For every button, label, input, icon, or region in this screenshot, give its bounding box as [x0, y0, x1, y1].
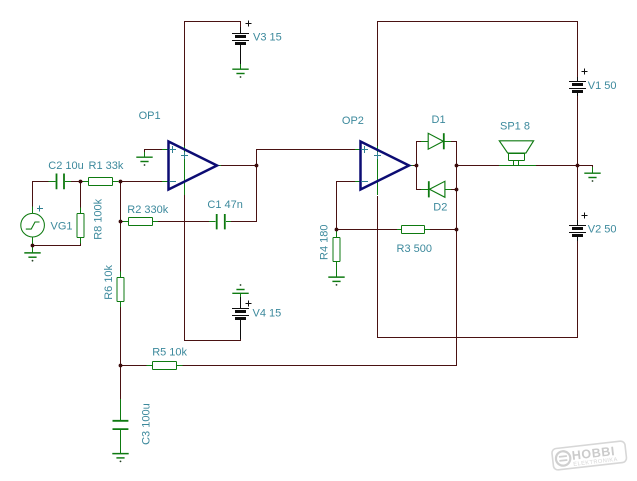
wire: C2 to R1 node: [71, 181, 87, 183]
svg-text:R2 330k: R2 330k: [127, 204, 168, 216]
wire: R5 to riser up to R3 node: [182, 231, 457, 366]
node: D2 cathode on right rail: [455, 188, 459, 192]
node: OP2 output junction: [415, 164, 419, 168]
node: R1/R2/R6 inverting junction: [119, 180, 123, 184]
wire: diode bridge left rail: [413, 142, 421, 190]
wire: bottom node to R5: [121, 365, 148, 367]
node: OP1 output junction: [255, 164, 259, 168]
wire: R6 to bottom node: [120, 306, 122, 366]
wire: R4 node to R3: [337, 229, 399, 231]
wire: OP1 positive supply riser and top rail to V3: [185, 22, 241, 147]
node: R2 trunk junction: [119, 220, 123, 224]
svg-text:R3 500: R3 500: [397, 243, 432, 255]
node: C2/R1/R8 junction: [79, 180, 83, 184]
resistor R1 33k: [89, 178, 113, 186]
resistor R3 500: [402, 226, 425, 234]
source VG1: [21, 213, 45, 237]
wire: right rail through speaker to supply midpoint: [457, 165, 578, 167]
resistor R5 10k: [153, 362, 177, 370]
capacitor C3 100u: [113, 421, 129, 429]
resistor R4 180: [333, 238, 340, 262]
ground below R4: [328, 276, 344, 278]
node: supply midpoint junction: [576, 164, 580, 168]
battery V1 50: [577, 77, 579, 81]
node: VG1 ground junction: [31, 244, 35, 248]
svg-text:V2 50: V2 50: [588, 224, 617, 236]
svg-text:V4 15: V4 15: [253, 307, 282, 319]
wire: R2 to inverting trunk: [121, 221, 124, 223]
wire: OP1 + input to ground: [145, 150, 163, 154]
speaker SP1 8: [499, 141, 533, 153]
wire: midpoint node to ground stub: [578, 166, 593, 170]
wire: V2 down, box bottom edge, box left edge: [378, 196, 578, 338]
diode D2: [421, 189, 451, 191]
svg-text:C3 100u: C3 100u: [141, 403, 153, 445]
svg-text:V1 50: V1 50: [588, 80, 617, 92]
ground at OP1 + input: [144, 152, 146, 157]
capacitor C2 10u: [57, 174, 65, 190]
wire: bottom node down to C3: [120, 366, 122, 403]
ground at V1/V2 midpoint: [592, 167, 594, 173]
vg1 plus marker: [37, 206, 43, 212]
wire: C1 to R2: [157, 221, 209, 223]
battery V2 50: [577, 220, 579, 225]
svg-text:OP1: OP1: [139, 110, 161, 122]
op-amp OP1 supply pin: [184, 146, 186, 195]
wire: V1 to supply midpoint node: [577, 94, 579, 166]
resistor R8 100k: [77, 214, 84, 238]
wire: diode bridge right rail: [451, 142, 457, 230]
wire: midpoint node down to V2: [577, 166, 579, 227]
svg-text:R4 180: R4 180: [318, 225, 330, 260]
ground below V3: [240, 64, 242, 69]
svg-text:V3 15: V3 15: [253, 31, 282, 43]
svg-text:OP2: OP2: [342, 115, 364, 127]
watermark logo: [552, 441, 627, 471]
svg-text:R6 10k: R6 10k: [103, 264, 115, 299]
resistor R2 330k: [129, 218, 153, 226]
capacitor C1 47n: [217, 214, 225, 229]
svg-text:C1 47n: C1 47n: [207, 199, 242, 211]
svg-text:C2 10u: C2 10u: [48, 160, 83, 172]
op-amp OP1: [162, 150, 221, 182]
svg-text:D2: D2: [433, 201, 447, 213]
wire: inverting trunk and R1 to OP1 - input: [121, 182, 163, 273]
svg-text:R1 33k: R1 33k: [89, 160, 124, 172]
wire: node down to R8: [80, 183, 82, 209]
ground above V4 (inverted): [240, 294, 242, 297]
wire: output node down to C1: [231, 166, 257, 222]
svg-text:VG1: VG1: [51, 221, 73, 233]
ground below C3: [112, 453, 128, 455]
wire: OP2 - input feedback down to R4 node: [337, 182, 357, 229]
wire: VG1 top to C2: [33, 182, 50, 211]
battery V4 15: [240, 297, 242, 308]
node: R5/C3 junction: [119, 364, 123, 368]
wire: R3 to right rail node: [429, 229, 457, 231]
node: speaker tap on right rail: [455, 164, 459, 168]
diode D1: [421, 141, 451, 143]
node: R4/R3 feedback junction: [335, 228, 339, 232]
wire: OP1 negative supply rail to V4: [185, 194, 241, 341]
wire: OP1 output to node and OP2 + input: [220, 150, 360, 166]
ground below VG1: [32, 247, 34, 253]
svg-text:R8 100k: R8 100k: [92, 198, 104, 239]
node: R3 right rail junction: [455, 228, 459, 232]
wire: box top rail from OP2 supply to V1: [378, 22, 578, 147]
battery V3 15: [240, 27, 242, 33]
resistor R6 10k: [117, 278, 124, 302]
op-amp OP2 supply pin: [377, 146, 379, 195]
svg-text:R5 10k: R5 10k: [152, 346, 187, 358]
svg-text:D1: D1: [432, 114, 446, 126]
op-amp OP2: [355, 150, 413, 182]
wire: R8 bottom to VG1 bottom node: [33, 242, 81, 246]
svg-text:SP1 8: SP1 8: [500, 121, 530, 133]
